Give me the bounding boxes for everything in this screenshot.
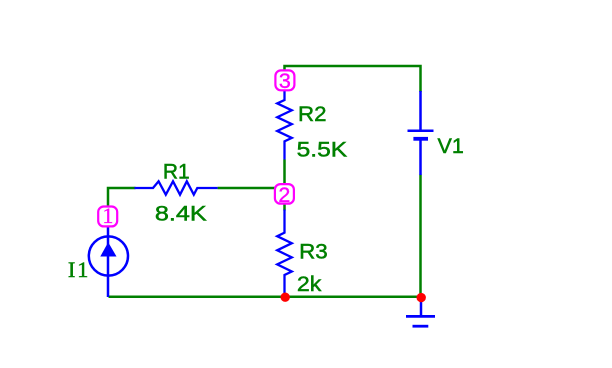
svg-text:5.5K: 5.5K xyxy=(297,137,348,161)
svg-text:I1: I1 xyxy=(68,257,90,282)
voltage source V1 xyxy=(408,91,434,175)
node 3 xyxy=(275,69,294,93)
svg-text:V1: V1 xyxy=(438,134,464,158)
wire R1 right to node2 xyxy=(218,187,275,190)
wire node1 to R1 left xyxy=(108,188,136,206)
svg-text:2: 2 xyxy=(278,183,290,207)
current source I1 xyxy=(89,227,128,297)
resistor R2 xyxy=(277,91,292,160)
svg-text:2k: 2k xyxy=(297,272,322,296)
svg-text:3: 3 xyxy=(279,69,291,93)
ground xyxy=(406,297,435,326)
node 1 xyxy=(98,203,117,228)
resistor R3 xyxy=(277,210,292,298)
wire bottom rail xyxy=(109,295,422,298)
junction dot node 0 right xyxy=(417,293,426,302)
wire R2 bottom to node2 top xyxy=(283,160,286,185)
svg-text:R1: R1 xyxy=(163,159,190,183)
svg-text:1: 1 xyxy=(102,203,113,228)
svg-text:R2: R2 xyxy=(298,102,327,126)
svg-text:R3: R3 xyxy=(299,239,328,263)
node 2 xyxy=(275,183,294,207)
wire node2 bottom to R3 top xyxy=(283,204,286,210)
junction dot node 0 left xyxy=(281,293,290,302)
resistor R1 xyxy=(135,181,218,194)
svg-text:8.4K: 8.4K xyxy=(155,202,208,226)
wire V1 bottom to ground node xyxy=(419,175,422,297)
wire top rail node3 to V1 xyxy=(285,66,421,92)
